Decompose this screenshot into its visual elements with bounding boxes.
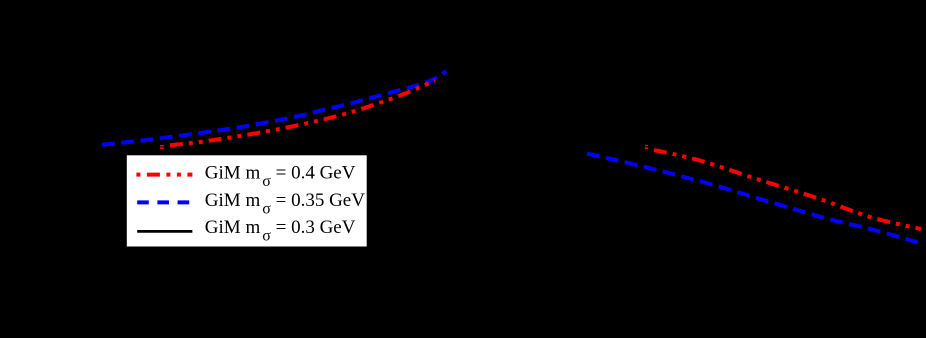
curve: left panel, GiM m_sigma = 0.35 GeV (blue dashed) — [102, 71, 446, 145]
legend box — [127, 155, 367, 246]
legend line: blue dashed sample — [137, 200, 192, 204]
left red curve start mark (threshold tick) — [160, 145, 164, 147]
right red curve start mark (threshold tick) — [645, 145, 648, 146]
legend line: black solid sample — [137, 230, 192, 233]
curve: right panel, GiM m_sigma = 0.4 GeV (red dash-dot-dot) — [654, 150, 921, 229]
legend line: red dash-dot-dot sample — [136, 173, 192, 177]
curve: right panel, GiM m_sigma = 0.35 GeV (blue dashed) — [587, 154, 923, 245]
curve: left panel, GiM m_sigma = 0.4 GeV (red dash-dot-dot) — [170, 81, 435, 146]
